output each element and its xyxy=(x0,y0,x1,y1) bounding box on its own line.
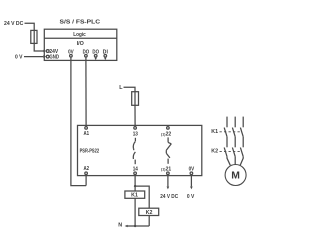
contactor K1 main contact blade L2 xyxy=(232,128,235,137)
wire terminal 14 down to K1 xyxy=(134,175,136,191)
contactor K1 main contact blade L3 xyxy=(240,128,243,137)
arrowhead toward N xyxy=(125,225,128,228)
svg-text:(1)22: (1)22 xyxy=(161,132,171,138)
svg-text:Logic: Logic xyxy=(73,32,86,38)
terminal 0V (PSR bottom) xyxy=(190,172,193,175)
wire L1 between K1 and K2 xyxy=(226,137,228,148)
wire branch to K2 coil xyxy=(135,186,149,208)
terminal A1 xyxy=(85,127,88,130)
stub DI with arrow to box edge xyxy=(104,57,106,60)
svg-text:0 V: 0 V xyxy=(15,55,23,61)
arrowhead into 24V terminal xyxy=(43,50,46,53)
terminal 24V xyxy=(46,50,49,53)
junction node K1/N xyxy=(134,225,136,227)
contactor K2 main contact blade L1 xyxy=(224,148,227,157)
svg-text:DO: DO xyxy=(92,49,99,55)
svg-text:S/S / FS-PLC: S/S / FS-PLC xyxy=(60,20,101,26)
wire 0V PLC down and around to A2 xyxy=(71,57,86,186)
stub DO2 with arrow to box edge xyxy=(95,57,97,60)
terminal DO2 (PLC bottom) xyxy=(94,55,97,58)
svg-text:0 V: 0 V xyxy=(187,194,195,200)
terminal DO1 (PLC bottom) xyxy=(85,55,88,58)
terminal GND xyxy=(46,55,49,58)
PLC box S/S / FS-PLC xyxy=(44,29,117,60)
wire L1 into motor xyxy=(227,157,230,166)
svg-text:0V: 0V xyxy=(68,49,74,55)
N neutral wire xyxy=(127,225,149,227)
svg-text:A2: A2 xyxy=(84,166,90,172)
three-phase line L3 xyxy=(242,117,244,128)
svg-text:PSR-PS22: PSR-PS22 xyxy=(80,149,100,155)
terminal 13 xyxy=(134,127,137,130)
contactor coil K2 xyxy=(139,208,159,215)
wire DO1 PLC down to A1 xyxy=(85,57,87,126)
wire A2 stub down xyxy=(85,175,87,186)
svg-text:24 V DC: 24 V DC xyxy=(160,194,178,200)
stub (1)21 with arrow down xyxy=(167,175,170,190)
motor M circle xyxy=(225,165,246,186)
contactor K1 main contact blade L1 xyxy=(224,128,227,137)
terminal (1)21 xyxy=(167,172,170,175)
svg-text:0V: 0V xyxy=(189,166,195,172)
svg-text:K1: K1 xyxy=(131,193,138,199)
contactor coil K1 xyxy=(125,191,145,198)
terminal (1)22 xyxy=(167,127,170,130)
divider Logic/I/O xyxy=(44,37,117,39)
label L phase xyxy=(0,0,1,1)
terminal 14 xyxy=(134,172,137,175)
fuse F1 xyxy=(31,30,37,43)
wire L to fuse F2 xyxy=(124,87,136,92)
contactor K2 main contact blade L2 xyxy=(232,148,235,157)
contact 13-14 (two NO contacts in series) xyxy=(133,138,135,164)
three-phase line L1 xyxy=(226,117,228,128)
three-phase line L2 xyxy=(234,117,236,128)
svg-text:DI: DI xyxy=(103,49,109,55)
wire L2 between K1 and K2 xyxy=(234,137,236,148)
wire L3 between K1 and K2 xyxy=(242,137,244,148)
arrowhead into GND terminal xyxy=(43,55,46,58)
stub 0V PSR with arrow down xyxy=(190,175,193,190)
K2 linkage dashed line xyxy=(220,151,242,153)
wire L3 into motor xyxy=(240,157,243,166)
wire L2 into motor xyxy=(234,157,236,165)
svg-text:K1: K1 xyxy=(211,129,218,135)
wire K2 coil to N xyxy=(148,215,150,226)
svg-text:N: N xyxy=(118,222,122,228)
label 24 V DC supply xyxy=(0,0,1,1)
svg-text:14: 14 xyxy=(133,166,138,172)
svg-text:24 V DC: 24 V DC xyxy=(4,21,23,27)
contactor K2 main contact blade L3 xyxy=(240,148,243,157)
svg-text:K2: K2 xyxy=(146,210,153,216)
svg-text:GND: GND xyxy=(49,55,59,61)
K1 linkage dashed line xyxy=(220,131,242,133)
svg-text:(1)21: (1)21 xyxy=(161,166,171,172)
terminal 0V (PLC bottom) xyxy=(70,55,73,58)
wire fuse F2 to terminal 13 xyxy=(134,105,136,126)
junction node at branch to K2 xyxy=(134,185,136,187)
terminal DI (PLC bottom) xyxy=(104,55,107,58)
svg-text:13: 13 xyxy=(133,132,138,138)
svg-text:M: M xyxy=(231,171,240,182)
svg-text:A1: A1 xyxy=(84,131,90,137)
wire from 24 V DC to fuse F1 xyxy=(25,23,35,30)
svg-text:DO: DO xyxy=(83,49,90,55)
wire 0 V to GND terminal xyxy=(24,56,43,58)
terminal A2 xyxy=(85,172,88,175)
svg-text:I/O: I/O xyxy=(77,41,84,47)
wire fuse to 24V terminal xyxy=(34,43,43,51)
wire K1 coil to N xyxy=(134,198,136,226)
safety relay PSR-PS22 box xyxy=(78,125,202,175)
fuse F2 xyxy=(132,92,139,106)
label 0 V xyxy=(0,0,1,1)
contact (1)22-(1)21 (NC feedback contact) xyxy=(166,137,171,163)
svg-text:L: L xyxy=(119,85,123,91)
svg-text:K2: K2 xyxy=(211,149,218,155)
